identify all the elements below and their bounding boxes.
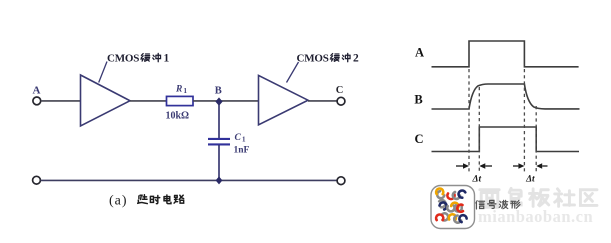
svg-text:C: C [336, 85, 344, 96]
svg-text:2: 2 [353, 53, 359, 65]
wire C1 down to bottom rail [218, 145, 220, 180]
arrow pointing left at t4 [542, 165, 547, 167]
wire U2 output to terminal C [308, 100, 337, 102]
terminal A (input port circle) [33, 97, 41, 105]
dashed line t4 (C falling edge) [535, 106, 537, 174]
waveform B trace (RC charge/discharge at node B) [432, 84, 580, 109]
svg-text:Δt: Δt [471, 175, 481, 185]
junction dot bottom rail at C1 [216, 176, 223, 184]
arrow pointing right at t1 [456, 165, 463, 167]
op-amp buffer U2 (CMOS buffer 2) triangle [259, 75, 309, 124]
resistor R1 body [167, 96, 194, 105]
svg-text:1nF: 1nF [234, 145, 250, 155]
terminal bottom-right (common rail port) [337, 177, 345, 185]
svg-text:1: 1 [164, 53, 170, 65]
wire R1 to node B to U2 input [193, 100, 259, 102]
leader line to label CMOS buffer 2 [287, 62, 299, 83]
watermark logo (mianbaoban breadboard knot) [431, 186, 475, 229]
svg-text:CMOS: CMOS [107, 53, 139, 65]
svg-text:B: B [215, 85, 222, 96]
dashed line t2 (C rising edge) [478, 87, 480, 174]
terminal bottom-left (common rail port) [33, 176, 41, 184]
wire U1 output to R1 [130, 100, 167, 102]
watermark text 面包板社区 [480, 188, 597, 207]
arrow pointing right at t3 [513, 165, 518, 167]
svg-text:1: 1 [242, 136, 246, 144]
svg-text:A: A [33, 85, 41, 97]
label CMOS 缓冲1 [107, 53, 170, 65]
caption (a) 延时电路 [109, 194, 184, 209]
svg-text:10kΩ: 10kΩ [166, 111, 190, 122]
wire A to U1 input [41, 100, 81, 102]
waveform C trace (delayed output pulse) [432, 127, 580, 152]
dashed line t1 (A rising edge) [468, 69, 470, 174]
svg-text:A: A [415, 46, 424, 60]
svg-text:1: 1 [184, 87, 188, 95]
label CMOS 缓冲2 [297, 53, 360, 65]
capacitor C1 plates [208, 138, 230, 140]
svg-text:(a): (a) [109, 194, 128, 209]
waveform A trace (input pulse) [432, 41, 579, 67]
svg-text:CMOS: CMOS [297, 53, 329, 65]
bottom rail wire [41, 179, 338, 181]
terminal C (output port circle) [337, 97, 345, 105]
dashed line t3 (A falling edge) [523, 69, 525, 174]
arrow pointing left at t2 [485, 165, 492, 167]
svg-text:mianbaoban.cn: mianbaoban.cn [478, 207, 593, 226]
caption 信号波形 (waveform caption) [476, 200, 520, 209]
op-amp buffer U1 (CMOS buffer 1) triangle [81, 75, 131, 126]
leader line to label CMOS buffer 1 [99, 62, 107, 83]
wire node B down to C1 [218, 102, 220, 138]
svg-text:R: R [175, 85, 182, 95]
svg-text:Δt: Δt [525, 175, 535, 185]
svg-text:C: C [235, 133, 242, 143]
svg-text:B: B [414, 93, 422, 107]
svg-text:C: C [414, 132, 423, 146]
junction dot node B [215, 97, 222, 105]
